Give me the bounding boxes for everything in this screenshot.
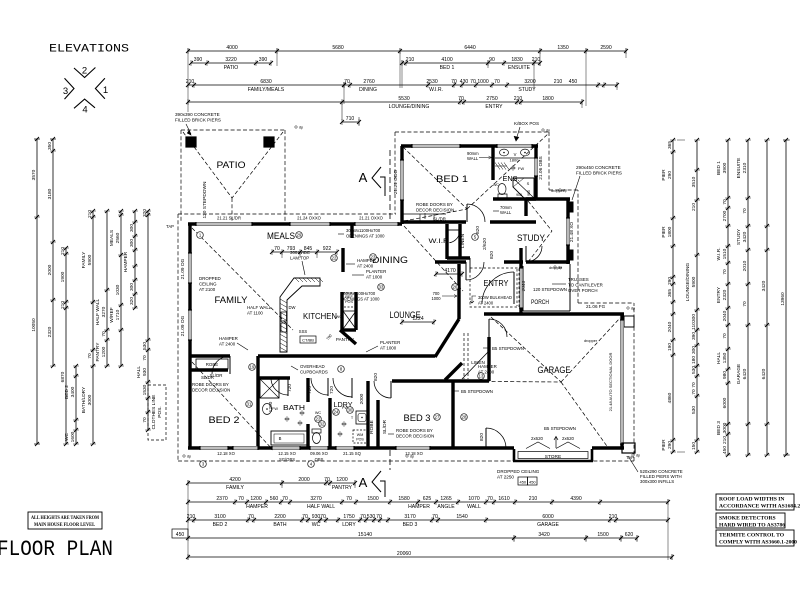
svg-text:HAMPER: HAMPER bbox=[246, 504, 268, 510]
left dimension col 3 bbox=[65, 248, 67, 444]
bottom dimension row 4 bbox=[188, 537, 637, 539]
garage pier bottom right bbox=[622, 443, 635, 453]
left dimension col 1 bbox=[36, 139, 38, 444]
svg-text:PATIO: PATIO bbox=[217, 160, 246, 170]
svg-text:70: 70 bbox=[282, 496, 288, 502]
svg-text:3: 3 bbox=[63, 86, 68, 97]
svg-text:DROPPED CEILING: DROPPED CEILING bbox=[497, 469, 540, 474]
svg-text:10050: 10050 bbox=[31, 318, 37, 332]
svg-text:1600: 1600 bbox=[70, 431, 76, 442]
door entry to hall bbox=[465, 262, 467, 280]
svg-text:365: 365 bbox=[667, 289, 673, 297]
door ldry bbox=[351, 378, 353, 398]
door linen hall bbox=[469, 258, 471, 272]
svg-text:70: 70 bbox=[142, 417, 148, 423]
svg-text:CT/BB: CT/BB bbox=[302, 338, 314, 343]
svg-text:980: 980 bbox=[722, 371, 728, 379]
svg-text:27: 27 bbox=[435, 415, 440, 420]
svg-text:530: 530 bbox=[691, 406, 697, 414]
svg-text:300Wx1100Hx700: 300Wx1100Hx700 bbox=[346, 228, 381, 233]
svg-text:BED 1: BED 1 bbox=[716, 161, 722, 175]
kitchen pantry/fridge walls bbox=[341, 248, 344, 272]
svg-text:1830: 1830 bbox=[511, 57, 522, 63]
svg-text:1800: 1800 bbox=[542, 96, 553, 102]
ens vanity bbox=[495, 157, 534, 159]
section line A top bbox=[389, 150, 391, 222]
tap crosses bath/ldry bbox=[284, 418, 289, 420]
svg-text:TAP: TAP bbox=[626, 455, 634, 460]
svg-text:5680: 5680 bbox=[332, 45, 343, 51]
svg-text:450: 450 bbox=[520, 480, 527, 485]
svg-text:BATH/LDRY: BATH/LDRY bbox=[81, 386, 87, 413]
svg-text:BATH: BATH bbox=[273, 522, 287, 528]
svg-text:450: 450 bbox=[529, 480, 536, 485]
svg-text:AT 2250: AT 2250 bbox=[497, 475, 514, 480]
svg-text:70: 70 bbox=[742, 301, 748, 307]
note box smoke detectors bbox=[716, 513, 785, 528]
svg-text:900: 900 bbox=[527, 190, 531, 196]
svg-text:1350: 1350 bbox=[722, 352, 728, 363]
interior wall family/hall bbox=[190, 354, 230, 357]
dp markers bbox=[295, 126, 297, 128]
wc/ldry wall bbox=[328, 398, 331, 448]
bath top wall bbox=[258, 376, 290, 379]
wall garage right bbox=[620, 313, 623, 448]
svg-text:4: 4 bbox=[82, 105, 87, 116]
svg-text:22: 22 bbox=[332, 256, 337, 261]
svg-text:B: B bbox=[279, 436, 282, 441]
svg-text:A: A bbox=[359, 475, 368, 490]
svg-text:3170: 3170 bbox=[404, 514, 415, 520]
svg-text:SMOKE DETECTORS: SMOKE DETECTORS bbox=[719, 516, 776, 522]
svg-text:1800: 1800 bbox=[510, 158, 520, 163]
svg-text:450: 450 bbox=[722, 446, 728, 454]
svg-text:70: 70 bbox=[722, 333, 728, 339]
svg-text:1500: 1500 bbox=[367, 496, 378, 502]
svg-text:210: 210 bbox=[529, 496, 538, 502]
lounge east wall bbox=[457, 264, 460, 319]
svg-text:6420: 6420 bbox=[742, 368, 748, 379]
bed1 block top wall bbox=[401, 144, 538, 147]
svg-text:4170: 4170 bbox=[444, 268, 455, 274]
svg-text:GARAGE: GARAGE bbox=[537, 522, 559, 528]
svg-text:MEALS: MEALS bbox=[267, 231, 295, 241]
window bed1 top bbox=[412, 144, 460, 148]
svg-text:1224: 1224 bbox=[412, 316, 423, 322]
svg-text:1: 1 bbox=[103, 85, 108, 96]
svg-text:HALF WALL: HALF WALL bbox=[95, 298, 101, 325]
svg-text:TERMITE CONTROL TO: TERMITE CONTROL TO bbox=[719, 533, 785, 539]
window bed1 left wall bbox=[400, 160, 404, 200]
svg-text:COMPLY WITH AS3660.1-2000: COMPLY WITH AS3660.1-2000 bbox=[719, 540, 797, 546]
dim extension lines top bbox=[187, 48, 189, 112]
svg-text:13960: 13960 bbox=[780, 292, 786, 306]
svg-text:CLOTHES LINE: CLOTHES LINE bbox=[151, 395, 157, 430]
svg-text:HALL: HALL bbox=[136, 366, 142, 378]
svg-text:3270: 3270 bbox=[101, 306, 107, 317]
svg-text:210: 210 bbox=[554, 79, 563, 85]
svg-text:2370: 2370 bbox=[216, 496, 227, 502]
svg-text:70: 70 bbox=[494, 79, 500, 85]
svg-text:AT 2100: AT 2100 bbox=[199, 287, 216, 292]
svg-text:350: 350 bbox=[47, 142, 53, 150]
svg-text:30: 30 bbox=[348, 408, 353, 413]
svg-text:ROBE: ROBE bbox=[369, 420, 375, 434]
svg-text:300x300 INFILLS: 300x300 INFILLS bbox=[640, 479, 674, 484]
svg-text:OBS: OBS bbox=[315, 457, 324, 462]
svg-text:300Wx1100Hx700: 300Wx1100Hx700 bbox=[341, 291, 376, 296]
svg-text:2200: 2200 bbox=[274, 514, 285, 520]
svg-text:21.24 OXXO: 21.24 OXXO bbox=[297, 216, 321, 221]
left dimension col 6 bbox=[106, 211, 108, 366]
svg-text:1000: 1000 bbox=[477, 79, 488, 85]
svg-text:2760: 2760 bbox=[363, 79, 374, 85]
svg-text:DECOR DECISION: DECOR DECISION bbox=[396, 434, 434, 439]
bottom dimension row 5 bbox=[188, 556, 672, 558]
svg-text:dp: dp bbox=[563, 189, 567, 193]
svg-text:210: 210 bbox=[609, 514, 618, 520]
svg-text:6830: 6830 bbox=[260, 79, 271, 85]
svg-text:2000: 2000 bbox=[298, 477, 309, 483]
wall top family/meals bbox=[188, 222, 402, 225]
store window openings bbox=[521, 449, 535, 451]
svg-text:FILLED BRICK PIERS: FILLED BRICK PIERS bbox=[175, 118, 221, 123]
svg-text:70: 70 bbox=[470, 79, 476, 85]
svg-text:CEILING: CEILING bbox=[199, 282, 217, 287]
svg-text:70: 70 bbox=[344, 79, 350, 85]
svg-text:70: 70 bbox=[722, 199, 728, 205]
ldry wm bbox=[353, 430, 367, 443]
svg-text:290: 290 bbox=[667, 171, 673, 179]
svg-text:390: 390 bbox=[259, 57, 268, 63]
svg-text:210: 210 bbox=[691, 203, 697, 211]
left dimension col 4 bbox=[75, 366, 77, 444]
bed3 robe front wall bbox=[376, 400, 379, 448]
svg-text:BED 3: BED 3 bbox=[404, 413, 431, 423]
svg-text:GARAGE: GARAGE bbox=[538, 365, 571, 375]
svg-text:530: 530 bbox=[142, 342, 148, 350]
svg-text:SG/OBS: SG/OBS bbox=[279, 457, 295, 462]
svg-text:190: 190 bbox=[667, 343, 673, 351]
bed2 robe bbox=[196, 359, 228, 369]
svg-text:21.06 OBS: 21.06 OBS bbox=[538, 156, 544, 179]
left dimension col 7 bbox=[120, 211, 122, 366]
svg-text:320: 320 bbox=[129, 297, 135, 305]
svg-text:21.21 OXXO: 21.21 OXXO bbox=[359, 216, 383, 221]
svg-text:MAIN HOUSE FLOOR LEVEL: MAIN HOUSE FLOOR LEVEL bbox=[34, 523, 96, 528]
svg-text:21.15 SQ: 21.15 SQ bbox=[343, 451, 361, 456]
svg-text:OPENINGS AT 1000: OPENINGS AT 1000 bbox=[341, 297, 380, 302]
eave dashed outline main house bbox=[178, 213, 396, 215]
svg-text:922: 922 bbox=[323, 246, 332, 252]
svg-text:FAMILY: FAMILY bbox=[215, 295, 248, 305]
svg-text:210: 210 bbox=[186, 79, 195, 85]
svg-text:2000: 2000 bbox=[359, 393, 365, 404]
right dimension col B bbox=[696, 140, 698, 452]
bath tub bbox=[271, 431, 307, 445]
svg-text:DINING: DINING bbox=[359, 87, 377, 93]
svg-text:1750: 1750 bbox=[343, 514, 354, 520]
roof ridge bed3-garage bbox=[411, 381, 561, 382]
door wc bbox=[327, 378, 329, 396]
svg-text:4390: 4390 bbox=[570, 496, 581, 502]
svg-text:70: 70 bbox=[360, 514, 366, 520]
svg-text:70: 70 bbox=[324, 477, 330, 483]
svg-text:ROBE: ROBE bbox=[206, 362, 219, 367]
door wir bbox=[447, 229, 460, 231]
bed3 right wall bbox=[451, 381, 454, 449]
svg-text:HALF WALL: HALF WALL bbox=[307, 504, 335, 510]
svg-text:390: 390 bbox=[691, 332, 697, 340]
svg-text:POS: POS bbox=[356, 438, 364, 442]
roof hip dining bbox=[404, 226, 463, 291]
svg-text:HARD WIRED TO AS3786: HARD WIRED TO AS3786 bbox=[719, 523, 785, 529]
linen valley dashes bbox=[463, 333, 465, 379]
svg-text:210: 210 bbox=[406, 57, 415, 63]
svg-text:K/BOX POS: K/BOX POS bbox=[514, 121, 539, 126]
windows bottom wall bbox=[200, 446, 228, 450]
bottom dimension row 2 bbox=[188, 501, 668, 503]
roof hips garage bbox=[491, 317, 561, 382]
window ens top bbox=[497, 144, 532, 148]
svg-text:LOUNGE/DINING: LOUNGE/DINING bbox=[685, 263, 691, 302]
bed1 bottom wall / dining top bbox=[402, 220, 466, 223]
roof hips study bbox=[528, 201, 552, 231]
bath shower bbox=[260, 379, 279, 398]
svg-text:DECOR DECISION: DECOR DECISION bbox=[416, 208, 454, 213]
study bottom wall bbox=[526, 260, 570, 263]
svg-text:LAM.TOP: LAM.TOP bbox=[290, 256, 309, 261]
left dimension col 8 bbox=[134, 211, 136, 308]
svg-text:28: 28 bbox=[462, 415, 467, 420]
svg-text:HAMPER: HAMPER bbox=[219, 336, 238, 341]
entry right wall bbox=[519, 248, 522, 313]
svg-text:1200: 1200 bbox=[336, 477, 347, 483]
right dimension col A bbox=[672, 140, 674, 452]
svg-text:4000: 4000 bbox=[226, 45, 237, 51]
bath vanity bbox=[263, 404, 272, 415]
svg-text:19: 19 bbox=[250, 365, 255, 370]
svg-text:ROOF LOAD WIDTHS IN: ROOF LOAD WIDTHS IN bbox=[719, 497, 784, 503]
svg-text:3100: 3100 bbox=[214, 514, 225, 520]
svg-text:180: 180 bbox=[691, 356, 697, 364]
svg-text:530: 530 bbox=[367, 514, 376, 520]
svg-text:3000: 3000 bbox=[87, 394, 93, 405]
svg-text:WALL: WALL bbox=[467, 156, 479, 161]
svg-text:DROPPED: DROPPED bbox=[199, 276, 221, 281]
svg-text:SL/DR: SL/DR bbox=[201, 375, 214, 380]
right dimension col D bbox=[747, 140, 749, 455]
ens towel hatch bbox=[495, 163, 500, 170]
bed1 robe front bbox=[403, 213, 446, 215]
door garage house bbox=[485, 428, 487, 448]
porch slab edge bbox=[522, 266, 524, 311]
svg-text:2x620: 2x620 bbox=[531, 436, 544, 441]
svg-text:530: 530 bbox=[691, 366, 697, 374]
svg-text:ENSUITE: ENSUITE bbox=[508, 65, 531, 71]
svg-text:AT 2400: AT 2400 bbox=[357, 264, 374, 269]
left dimension col 2 bbox=[52, 139, 54, 366]
svg-text:70: 70 bbox=[376, 514, 382, 520]
svg-text:PLANTER: PLANTER bbox=[380, 340, 400, 345]
study piers bbox=[568, 202, 573, 212]
svg-text:DW: DW bbox=[289, 305, 296, 310]
garage west wall bbox=[487, 337, 490, 381]
svg-text:WM: WM bbox=[357, 433, 363, 437]
svg-text:3420: 3420 bbox=[761, 280, 767, 291]
svg-text:PIER: PIER bbox=[661, 169, 667, 181]
svg-text:70: 70 bbox=[87, 353, 93, 359]
svg-text:HALF WALL: HALF WALL bbox=[247, 305, 272, 310]
right dimension col C bbox=[727, 140, 729, 455]
svg-text:120 STEPDOWN: 120 STEPDOWN bbox=[533, 287, 567, 292]
svg-text:PLANTER: PLANTER bbox=[366, 269, 386, 274]
svg-text:2750: 2750 bbox=[486, 96, 497, 102]
circled numbers bbox=[197, 232, 204, 239]
svg-text:WC: WC bbox=[493, 183, 500, 187]
svg-text:ENSUITE: ENSUITE bbox=[736, 158, 742, 179]
svg-text:KITCHEN: KITCHEN bbox=[303, 311, 337, 321]
ens wc bbox=[498, 184, 506, 195]
wall oven bbox=[343, 311, 356, 329]
svg-text:W.I.R.: W.I.R. bbox=[716, 247, 722, 260]
svg-text:PANTRY: PANTRY bbox=[95, 342, 101, 362]
svg-text:625: 625 bbox=[423, 496, 432, 502]
store recess walls bbox=[513, 449, 516, 461]
svg-text:A: A bbox=[359, 170, 368, 185]
svg-text:dp: dp bbox=[410, 455, 414, 459]
right dimension col E bbox=[766, 140, 768, 455]
svg-text:LINEN: LINEN bbox=[460, 233, 466, 248]
svg-text:09.06 XO: 09.06 XO bbox=[310, 451, 328, 456]
svg-text:STUDY: STUDY bbox=[518, 87, 536, 93]
svg-text:BED 2: BED 2 bbox=[64, 385, 70, 399]
svg-text:FW: FW bbox=[518, 166, 524, 171]
svg-text:390x390 CONCRETE: 390x390 CONCRETE bbox=[175, 112, 220, 117]
svg-text:PANTRY: PANTRY bbox=[336, 337, 354, 342]
wc toilet bbox=[312, 429, 321, 433]
svg-text:320: 320 bbox=[142, 209, 148, 217]
svg-text:TO CANTILEVER: TO CANTILEVER bbox=[568, 283, 603, 288]
svg-text:120 STEPDOWN: 120 STEPDOWN bbox=[202, 181, 208, 219]
kitchen sink bbox=[281, 312, 287, 321]
svg-text:BED 2: BED 2 bbox=[213, 522, 228, 528]
svg-text:70: 70 bbox=[458, 96, 464, 102]
svg-text:W.I.R.: W.I.R. bbox=[429, 87, 443, 93]
svg-text:5530: 5530 bbox=[398, 96, 409, 102]
bottom dimension row 3 bbox=[188, 519, 668, 521]
patio dashed roof outline bbox=[181, 129, 285, 131]
top dimension row 3 family/meals bbox=[188, 84, 344, 86]
svg-text:900: 900 bbox=[516, 193, 522, 197]
bed3 top wall bbox=[392, 379, 489, 382]
svg-text:110: 110 bbox=[691, 322, 697, 330]
svg-text:70: 70 bbox=[432, 514, 438, 520]
dining west stub wall bbox=[350, 224, 353, 238]
note 1224 dim lounge bbox=[402, 321, 434, 323]
svg-text:21.21 SL/DR: 21.21 SL/DR bbox=[217, 216, 241, 221]
svg-text:15140: 15140 bbox=[358, 532, 372, 538]
svg-text:SL/DR: SL/DR bbox=[382, 419, 388, 434]
svg-text:FAMILY/MEALS: FAMILY/MEALS bbox=[248, 87, 285, 93]
top dimension row 2 patio bbox=[191, 62, 271, 64]
svg-text:3000: 3000 bbox=[722, 422, 728, 433]
left dimension col 9 bbox=[147, 211, 149, 430]
svg-text:ENS.: ENS. bbox=[503, 174, 520, 183]
svg-text:2/620: 2/620 bbox=[482, 238, 488, 250]
svg-text:210: 210 bbox=[60, 301, 66, 309]
svg-text:300: 300 bbox=[129, 224, 135, 232]
svg-text:PIER: PIER bbox=[661, 226, 667, 238]
svg-text:3180: 3180 bbox=[47, 188, 53, 199]
svg-text:BED 3: BED 3 bbox=[716, 421, 722, 435]
svg-text:210: 210 bbox=[722, 436, 728, 444]
svg-text:ACCORDANCE WITH AS1684.2: ACCORDANCE WITH AS1684.2 bbox=[719, 504, 800, 510]
svg-text:1610: 1610 bbox=[498, 496, 509, 502]
door bed3 bbox=[390, 381, 392, 398]
windows meals top bbox=[290, 222, 330, 226]
svg-text:AT 1100: AT 1100 bbox=[247, 311, 263, 316]
svg-text:GARAGE: GARAGE bbox=[736, 364, 742, 385]
garage top-right pier bbox=[624, 316, 634, 327]
svg-text:HALL: HALL bbox=[716, 352, 722, 364]
svg-text:dp: dp bbox=[546, 129, 550, 133]
svg-text:1580: 1580 bbox=[398, 496, 409, 502]
svg-text:SSS: SSS bbox=[299, 329, 308, 334]
svg-text:FAMILY: FAMILY bbox=[81, 251, 87, 269]
svg-text:WALL: WALL bbox=[467, 504, 481, 510]
svg-text:6420: 6420 bbox=[761, 368, 767, 379]
svg-text:3400: 3400 bbox=[70, 386, 76, 397]
svg-text:300: 300 bbox=[129, 239, 135, 247]
svg-text:1710: 1710 bbox=[115, 309, 121, 320]
svg-text:70: 70 bbox=[451, 79, 457, 85]
svg-text:1200: 1200 bbox=[101, 346, 107, 357]
svg-text:2: 2 bbox=[82, 66, 87, 77]
svg-text:720: 720 bbox=[329, 386, 335, 394]
svg-text:1070: 1070 bbox=[468, 496, 479, 502]
svg-text:W.I.R.: W.I.R. bbox=[429, 238, 452, 245]
note box termite control bbox=[716, 530, 794, 546]
svg-text:1350: 1350 bbox=[557, 45, 568, 51]
svg-text:4860: 4860 bbox=[667, 392, 673, 403]
svg-text:FAMILY: FAMILY bbox=[226, 485, 244, 491]
svg-text:WC: WC bbox=[64, 432, 70, 441]
svg-text:ENTRY: ENTRY bbox=[484, 279, 510, 288]
svg-text:31: 31 bbox=[247, 402, 252, 407]
roof hip bed2 bbox=[192, 362, 273, 450]
svg-text:CUPBOARDS: CUPBOARDS bbox=[300, 370, 328, 375]
svg-text:300: 300 bbox=[691, 346, 697, 354]
svg-text:B5 STEPDOWN: B5 STEPDOWN bbox=[544, 426, 576, 431]
svg-text:AT 1000: AT 1000 bbox=[366, 275, 383, 280]
svg-text:1510: 1510 bbox=[722, 248, 728, 259]
door bed2 bbox=[212, 356, 230, 374]
top dimension row 1 bbox=[188, 50, 626, 52]
svg-text:365: 365 bbox=[667, 141, 673, 149]
svg-text:ELEVATIONS: ELEVATIONS bbox=[49, 44, 129, 56]
right dimension col F bbox=[785, 140, 787, 455]
svg-text:PANTRY: PANTRY bbox=[332, 485, 353, 491]
svg-text:29: 29 bbox=[297, 233, 302, 238]
svg-text:PORCH: PORCH bbox=[531, 300, 549, 306]
window sliding door family bbox=[196, 222, 252, 226]
svg-text:6000: 6000 bbox=[542, 514, 553, 520]
svg-text:21.48 XO: 21.48 XO bbox=[569, 222, 575, 243]
top dimension row 3 dining wir study bbox=[344, 84, 617, 86]
svg-text:dp: dp bbox=[558, 266, 562, 270]
svg-text:2560: 2560 bbox=[115, 232, 121, 243]
